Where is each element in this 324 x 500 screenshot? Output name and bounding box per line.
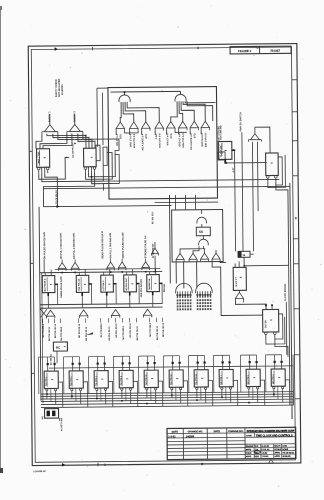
or-gate dome G2	[175, 94, 186, 101]
latch L1 output pins	[46, 389, 48, 391]
fan-in funnel UF3	[107, 262, 115, 270]
vertical wires to top box	[96, 88, 99, 146]
svg-text:READ PULSE 000-019 M: READ PULSE 000-019 M	[101, 231, 104, 259]
wire horizontal y163	[226, 162, 266, 164]
svg-text:TM CTR 1: TM CTR 1	[46, 377, 48, 387]
junction dots bus y271	[61, 272, 63, 274]
zone tick bottom arrow	[62, 463, 66, 466]
svg-text:ON PULSE 000-019 MIN: ON PULSE 000-019 MIN	[44, 232, 46, 259]
wire left feeders	[39, 207, 41, 401]
output stub box A right	[232, 149, 235, 151]
wire right feeder down	[290, 183, 292, 419]
svg-text:GRD CT 0-4: GRD CT 0-4	[130, 133, 132, 147]
svg-text:000-040: 000-040	[164, 283, 166, 292]
zone ticks right border	[292, 79, 297, 81]
output stub GB2	[89, 283, 92, 285]
svg-text:RC: RC	[56, 346, 61, 350]
wire funnel row links	[125, 131, 139, 133]
wire latch L1 side	[58, 382, 63, 407]
svg-text:T&D PUL GA: T&D PUL GA	[77, 278, 80, 291]
svg-text:TIMING PULSE GATE: TIMING PULSE GATE	[60, 276, 63, 298]
group box top center	[108, 87, 218, 200]
flip-flop latch L9	[246, 369, 260, 386]
fan-in funnel TF2	[130, 122, 138, 131]
logic box RC	[53, 342, 67, 351]
wire junction FF2 out	[91, 176, 92, 177]
zone tick top x94	[92, 47, 94, 50]
svg-text:ORD PUL 040-059: ORD PUL 040-059	[141, 278, 143, 297]
flip-flop FF2	[84, 148, 97, 167]
wire UF5 stem	[145, 259, 147, 262]
svg-text:NAME: NAME	[246, 434, 252, 437]
wire box A output down	[234, 151, 237, 251]
wire tick y205	[57, 205, 60, 208]
wire y184 long horizontal	[43, 186, 289, 188]
flip-flop latch L10	[271, 369, 285, 386]
border frame outer	[28, 44, 301, 466]
wire bus y303	[40, 304, 162, 305]
svg-text:NO PULSE G: NO PULSE G	[44, 278, 46, 291]
title block table	[167, 427, 296, 459]
wire M funnel outputs right	[220, 261, 226, 263]
wire latch L6 side	[183, 381, 188, 406]
latch L2 output pins	[71, 389, 73, 391]
svg-text:73-I087: 73-I087	[270, 49, 280, 53]
wire long horizontal y205	[43, 190, 171, 207]
svg-text:HR CTR 1: HR CTR 1	[221, 375, 223, 385]
wire bus y268	[55, 269, 160, 270]
fan-in funnel LF1	[46, 310, 54, 318]
wire funnel TF6 output	[178, 130, 180, 134]
chkd scribble	[255, 450, 260, 453]
wire UF1 stem	[61, 260, 63, 263]
wire latch L4 side	[133, 381, 138, 406]
svg-text:4-5 10-30-62: 4-5 10-30-62	[282, 452, 294, 454]
svg-text:APPD: APPD	[274, 451, 280, 454]
svg-text:GTD: GTD	[171, 133, 173, 138]
svg-text:TM CTR 000-9: TM CTR 000-9	[61, 326, 63, 341]
wire harness dome G1	[120, 102, 121, 122]
latch L7 input stubs	[197, 364, 199, 370]
flip-flop FF3	[266, 153, 279, 176]
decoder D1 pins	[176, 291, 178, 296]
svg-text:WR CT 4-9: WR CT 4-9	[167, 133, 169, 145]
wire left feeder from top box	[168, 195, 171, 283]
wire pwr su	[242, 132, 243, 251]
fan-in funnel TF6	[179, 121, 187, 130]
svg-text:A GA: A GA	[155, 133, 158, 139]
svg-text:NONE: NONE	[282, 449, 288, 451]
svg-text:HR CTR 4: HR CTR 4	[273, 374, 275, 384]
fan-in funnel TF3	[142, 122, 150, 131]
output stub box A bottom	[224, 159, 226, 163]
flip-flop FF1 pins	[37, 167, 40, 170]
svg-text:TM CTR 16: TM CTR 16	[146, 375, 148, 386]
wire latch L8 side	[233, 380, 238, 405]
wire junction parity2	[85, 135, 86, 136]
svg-text:PARITY CHECK: PARITY CHECK	[55, 79, 58, 97]
svg-text:MIN CTR 0-9: MIN CTR 0-9	[159, 133, 161, 148]
svg-text:MIN CTR 0-9: MIN CTR 0-9	[134, 133, 136, 148]
svg-text:DATE: DATE	[172, 431, 179, 434]
svg-text:TIMING PUL: TIMING PUL	[149, 278, 151, 290]
wire clock error	[285, 302, 288, 355]
decoder D2 pins	[196, 291, 198, 296]
svg-text:HR CTR 2: HR CTR 2	[248, 375, 250, 385]
wire harness dome G2	[171, 101, 178, 121]
wire bus y271	[40, 272, 162, 273]
wire funnel TF5 output	[166, 131, 168, 135]
svg-text:MIN CTR 0-9: MIN CTR 0-9	[183, 133, 185, 148]
svg-text:TM CTR 2: TM CTR 2	[71, 376, 73, 386]
svg-text:B: B	[295, 216, 297, 220]
wire latch L4 top riser	[122, 356, 124, 362]
svg-text:RD PUL 00-19: RD PUL 00-19	[137, 325, 139, 340]
zone ticks left border	[29, 150, 32, 152]
latch L8 output pins	[221, 387, 223, 389]
latch L2 input stubs	[72, 365, 74, 371]
wire GB5 connections	[149, 272, 151, 275]
wire top box bottom connects	[174, 195, 176, 210]
wire FF3 loops	[276, 157, 283, 185]
decoder D1 label grid	[177, 299, 179, 301]
svg-text:RD PUL 00-19: RD PUL 00-19	[116, 323, 118, 338]
wire latch L10 side	[285, 380, 290, 405]
wire UF3 stem	[110, 259, 112, 262]
flip-flop FF4 stubs	[265, 306, 267, 310]
decoder D2 pin loops	[197, 294, 199, 296]
latch L10 input stubs	[274, 363, 276, 369]
wire latch L2 side	[83, 382, 88, 407]
wire junction y163	[225, 162, 227, 164]
fan-in funnel TF1	[116, 122, 124, 131]
wire bus lines bottom	[41, 392, 293, 394]
svg-text:1-3-62: 1-3-62	[168, 435, 176, 438]
zone tick bottom x96	[97, 463, 99, 466]
svg-text:RD A GATE 4-9: RD A GATE 4-9	[190, 133, 193, 150]
svg-text:APPD: APPD	[274, 455, 280, 458]
wire connector	[250, 253, 253, 255]
svg-text:GRD GA 0-9: GRD GA 0-9	[201, 132, 204, 146]
approval rows	[245, 443, 296, 445]
wire latch L9 top riser	[249, 355, 251, 361]
svg-text:IN 40CE1: IN 40CE1	[62, 84, 64, 95]
fan-in funnel TF5	[167, 121, 175, 130]
svg-text:CLOCK ON: CLOCK ON	[221, 145, 223, 157]
svg-text:SS: SS	[199, 230, 203, 234]
latch L6 input stubs	[172, 364, 174, 370]
wire FF cluster loops left	[39, 157, 70, 179]
flip-flop latch L8	[219, 369, 233, 386]
wire latch L3 top riser	[97, 356, 99, 362]
wire MS down	[154, 242, 156, 248]
decoder dome D1	[176, 283, 192, 293]
svg-text:CLK ER: CLK ER	[265, 320, 267, 328]
fan-in funnel MF4	[212, 253, 220, 261]
fan-in funnel UF4	[118, 262, 126, 270]
logic gate box GB1	[42, 276, 55, 293]
fan-in funnel BF	[235, 292, 243, 300]
logic gate box GB2	[76, 275, 89, 292]
flip-flop latch L6	[169, 370, 183, 387]
wire parity2 stem	[74, 114, 76, 124]
svg-text:1-8-62: 1-8-62	[261, 453, 268, 455]
flip-flop latch L3	[94, 371, 108, 388]
svg-text:TM CTR 8: TM CTR 8	[121, 376, 123, 386]
wire UF2 stem	[74, 259, 76, 262]
latch L4 input stubs	[122, 364, 124, 370]
svg-text:RC 300 (0): RC 300 (0)	[50, 354, 52, 365]
wire funnel TF1 output	[115, 131, 117, 135]
fan symbol right	[248, 134, 261, 142]
fan-in funnel MF1	[176, 253, 184, 261]
latch L8 input stubs	[222, 363, 224, 369]
svg-text:BLK CRB IND: BLK CRB IND	[220, 125, 222, 140]
wire label stems	[43, 259, 45, 272]
ac ret line box	[45, 409, 59, 419]
svg-text:CHANGE NO.: CHANGE NO.	[228, 430, 244, 433]
svg-text:A GT: A GT	[232, 167, 235, 173]
wire latch L1 top riser	[47, 357, 49, 363]
approval row dividers	[253, 444, 255, 458]
svg-text:SCALE: SCALE	[274, 448, 281, 451]
output stub GB4	[136, 283, 139, 285]
svg-text:MACH: MACH	[274, 445, 280, 448]
fan-in funnel MS	[151, 248, 158, 256]
svg-text:ON PUL 2 040-059 MIN: ON PUL 2 040-059 MIN	[74, 233, 76, 259]
wire corner stub x104	[103, 184, 111, 191]
fan symbol parity 2	[67, 124, 83, 133]
flip-flop FF4 pins	[264, 332, 267, 335]
svg-text:RD PUL 00-19: RD PUL 00-19	[163, 322, 165, 337]
wire y266 horizontal	[244, 257, 289, 266]
svg-text:14: 14	[243, 254, 246, 257]
svg-text:5 JUL 62: 5 JUL 62	[261, 449, 270, 451]
svg-text:11-20-61: 11-20-61	[261, 446, 270, 448]
wire dome input header	[110, 90, 180, 93]
wire BF down	[238, 290, 240, 292]
wire latch L5 top riser	[147, 356, 149, 362]
wire y202 segment	[155, 201, 218, 204]
svg-text:TM CTR 000-9: TM CTR 000-9	[101, 322, 103, 337]
wire funnel TF3 output	[141, 131, 143, 135]
wire junction y266	[243, 265, 245, 267]
fan-in funnel UF1	[58, 262, 66, 270]
triangle mark below title	[269, 460, 274, 464]
wire GB1 connections	[44, 273, 46, 276]
tall box B	[233, 267, 246, 290]
latch L3 input stubs	[97, 365, 99, 371]
svg-text:RD PUL 00-19: RD PUL 00-19	[49, 326, 51, 341]
or-gate dome G1	[119, 95, 130, 102]
svg-text:RC 303 (0) J: RC 303 (0) J	[152, 212, 154, 225]
svg-text:AT HOME GT: AT HOME GT	[152, 243, 155, 258]
svg-text:TM CTR 000-9: TM CTR 000-9	[150, 322, 152, 337]
wire funnel MF3 to decoder	[196, 261, 198, 288]
zone tick top-left arrow	[55, 47, 59, 50]
svg-text:RD PUL 00-19: RD PUL 00-19	[109, 326, 111, 341]
wire GB2 connections	[78, 272, 80, 275]
svg-text:DRAWN: DRAWN	[246, 445, 254, 448]
wire parity1 stem	[49, 114, 51, 124]
latch L9 output pins	[248, 387, 250, 389]
svg-text:TM CTR 000-9: TM CTR 000-9	[43, 323, 45, 338]
change table columns	[182, 428, 184, 459]
latch L7 output pins	[196, 387, 198, 389]
wire dome G2 to box right edge	[185, 101, 216, 103]
wire FF4 loops	[275, 314, 283, 339]
svg-text:NO PUL GAT: NO PUL GAT	[125, 277, 128, 290]
output stub GB5	[159, 283, 162, 285]
fan-in funnel MF3	[201, 253, 209, 261]
wire funnel TF8 output	[200, 130, 202, 134]
svg-text:7-23-62: 7-23-62	[261, 456, 269, 458]
or-gate dome M2	[199, 239, 209, 245]
svg-text:HBS: HBS	[255, 456, 260, 458]
svg-text:TM CTR 4: TM CTR 4	[96, 376, 98, 386]
svg-text:GTD: GTD	[194, 133, 196, 138]
wire latch L10 top riser	[274, 355, 276, 361]
wire SS chain	[201, 224, 203, 227]
svg-text:WRITE PULSE 070-100: WRITE PULSE 070-100	[123, 232, 125, 259]
wire right bus drop	[291, 408, 293, 419]
wire latch L6 top riser	[172, 356, 174, 362]
fan-in funnel UF5	[142, 262, 150, 270]
decoder dome D2	[196, 283, 212, 293]
svg-text:TM CTR 32: TM CTR 32	[171, 374, 173, 385]
svg-text:PAR 1 TGR: PAR 1 TGR	[37, 152, 40, 164]
wire latch L5 side	[158, 381, 163, 406]
logic gate box GB5	[147, 275, 160, 292]
figure box	[230, 46, 291, 54]
svg-text:GTD: GTD	[120, 134, 122, 139]
svg-text:ON PUL 1 000-019 MIN: ON PUL 1 000-019 MIN	[61, 233, 63, 259]
wire bus right risers	[292, 355, 294, 405]
name row	[253, 433, 255, 437]
logic gate box GB4	[124, 275, 137, 292]
junction dots on bus	[46, 393, 48, 395]
fan-in funnel MF2	[189, 253, 197, 261]
wire latch L7 top riser	[197, 356, 199, 362]
connector box CN	[238, 251, 250, 257]
box 40CE1 tag	[218, 152, 225, 160]
flip-flop latch L4	[119, 370, 133, 387]
border frame inner	[31, 47, 295, 462]
fan-in funnel LF3	[111, 309, 119, 317]
wire rc down	[56, 351, 58, 363]
wire fan stems down	[252, 142, 253, 251]
wire funnel TF7 output	[189, 130, 191, 134]
flip-flop FF4	[263, 309, 279, 332]
svg-text:W.K: W.K	[255, 446, 259, 448]
latch L9 input stubs	[249, 363, 251, 369]
svg-text:PWR SU SWITCH: PWR SU SWITCH	[240, 112, 242, 132]
svg-text:CLOCK ERROR: CLOCK ERROR	[285, 283, 287, 300]
logic box A clock on	[218, 141, 232, 159]
svg-text:RD PUL 00-19: RD PUL 00-19	[130, 322, 132, 337]
crossed wires mark	[41, 309, 48, 317]
wire latch L7 side	[208, 381, 213, 406]
flip-flop FF3 pins	[266, 176, 269, 179]
output stub GB1	[55, 284, 58, 286]
wire parity harness	[36, 134, 42, 149]
svg-text:DATE: DATE	[214, 430, 221, 433]
wire down to y205	[56, 191, 58, 206]
svg-text:GO CE PB GO: GO CE PB GO	[72, 143, 74, 158]
logic gate box GB3	[101, 275, 114, 292]
wire latch L2 top riser	[72, 357, 74, 363]
wire FF3 top	[269, 142, 271, 153]
wire GB4 connections	[126, 272, 128, 275]
svg-text:CHANGE NO.: CHANGE NO.	[188, 430, 204, 433]
svg-text:RD A GATE 0-4: RD A GATE 0-4	[141, 133, 144, 150]
or-gate dome M1	[197, 217, 207, 223]
wire fan input	[254, 127, 256, 133]
latch L1 input stubs	[47, 365, 49, 371]
pen smudge	[86, 332, 94, 335]
svg-text:ON PUL 1 000-090 MIN: ON PUL 1 000-090 MIN	[110, 232, 112, 258]
nested wire loop B	[115, 150, 119, 183]
latch L3 output pins	[96, 388, 98, 390]
svg-text:NOT INCLUDED: NOT INCLUDED	[59, 78, 61, 97]
wire funnel TF4 output	[154, 131, 156, 135]
group box middle	[172, 209, 223, 261]
wire dome M1 input	[201, 210, 203, 213]
fan-in funnel UF2	[71, 262, 79, 270]
wire junction dome G1	[124, 91, 126, 93]
wire M funnel feeds	[180, 246, 204, 253]
wire latch L8 top riser	[222, 355, 224, 361]
svg-text:APPD: APPD	[246, 448, 252, 451]
svg-text:B M 2 CT: B M 2 CT	[236, 276, 238, 286]
flip-flop FF2 pins	[84, 167, 87, 170]
svg-text:TM CTR 000-9: TM CTR 000-9	[123, 325, 125, 340]
svg-text:RD PUL 00-19: RD PUL 00-19	[55, 323, 57, 338]
flip-flop latch L7	[194, 370, 208, 387]
latch L6 output pins	[171, 388, 173, 390]
fan-in funnel LF4	[143, 309, 151, 317]
svg-text:40 BLKG: 40 BLKG	[282, 456, 291, 458]
wire bus y307	[40, 307, 162, 308]
flip-flop latch L1	[44, 371, 58, 388]
svg-text:MIN CTR 0-9: MIN CTR 0-9	[205, 132, 207, 147]
fan-in funnel LF2	[79, 310, 87, 318]
decoder D2 label grid	[197, 299, 199, 301]
flip-flop latch L5	[144, 370, 158, 387]
svg-text:APPD: APPD	[246, 455, 252, 458]
latch L4 output pins	[121, 388, 123, 390]
wire latch L9 side	[260, 380, 265, 405]
svg-text:GRD CT 4-9: GRD CT 4-9	[179, 133, 181, 147]
fan symbol parity 1	[42, 125, 58, 134]
svg-text:AC RET LINE: AC RET LINE	[60, 417, 63, 431]
wire UF4 stem	[121, 259, 123, 262]
decoder D1 pin loops	[177, 294, 179, 296]
fan-in funnel TF4	[155, 122, 163, 131]
wire FF cluster loops right	[85, 153, 112, 180]
fan-in funnel TF8	[201, 121, 209, 130]
svg-text:1ST PUL 2: 1ST PUL 2	[103, 281, 105, 291]
svg-text:140589: 140589	[186, 435, 195, 438]
latch L5 output pins	[146, 388, 148, 390]
nested wire loop A	[96, 145, 100, 161]
svg-text:RD PUL 00-19: RD PUL 00-19	[157, 325, 159, 340]
wire funnel MF1 to decoder	[175, 261, 177, 283]
wire bus y367	[49, 366, 293, 368]
wire funnel TF2 output	[129, 131, 131, 135]
wire box B top	[238, 261, 240, 267]
change table rows	[167, 432, 245, 435]
